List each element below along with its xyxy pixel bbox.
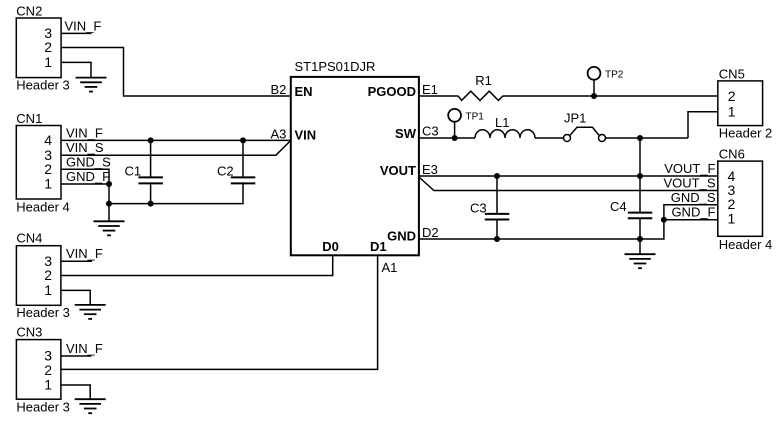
svg-text:C2: C2 xyxy=(217,164,234,179)
svg-text:CN1: CN1 xyxy=(16,111,42,126)
ground (CN3) xyxy=(75,399,106,413)
test point TP1 xyxy=(454,122,456,138)
svg-text:CN6: CN6 xyxy=(719,147,745,162)
node C3 bottom xyxy=(494,236,500,242)
wire PGOOD lead left xyxy=(419,95,458,97)
wire to CN5 pin1 xyxy=(688,112,718,138)
capacitor C2 xyxy=(231,140,256,183)
svg-text:ST1PS01DJR: ST1PS01DJR xyxy=(295,59,376,74)
svg-text:A1: A1 xyxy=(382,260,398,275)
svg-text:VIN_F: VIN_F xyxy=(66,341,103,356)
wire JP1 to node xyxy=(606,137,688,139)
svg-text:Header 3: Header 3 xyxy=(16,305,69,320)
svg-text:Header 2: Header 2 xyxy=(719,125,772,140)
resistor R1 xyxy=(458,91,503,100)
wire D0 to CN4 pin2 xyxy=(61,255,333,275)
wire VOUT to CN6 pin4 xyxy=(419,175,718,177)
capacitor C4 xyxy=(628,213,653,239)
capacitor C3 xyxy=(485,176,510,239)
svg-text:TP1: TP1 xyxy=(466,112,485,123)
svg-text:1: 1 xyxy=(44,282,52,298)
node rail junction xyxy=(106,201,112,207)
wire VOUT_S bus entry xyxy=(419,177,718,191)
svg-text:Header 4: Header 4 xyxy=(16,199,69,214)
svg-text:CN5: CN5 xyxy=(719,66,745,81)
svg-text:GND_S: GND_S xyxy=(671,190,716,205)
ground (CN1 rail) xyxy=(108,204,110,222)
jumper JP1 xyxy=(564,127,606,141)
node C4 bottom xyxy=(637,236,643,242)
svg-text:SW: SW xyxy=(395,126,417,141)
wire VIN_F to VIN pin xyxy=(61,139,291,141)
svg-text:VIN_F: VIN_F xyxy=(66,246,103,261)
svg-text:C4: C4 xyxy=(610,199,627,214)
svg-text:A3: A3 xyxy=(270,126,286,141)
wire GND_F xyxy=(61,183,109,185)
wire GND D2 rail to GND_S CN6 pin2 xyxy=(419,205,718,239)
node C1 bottom xyxy=(148,201,154,207)
svg-text:1: 1 xyxy=(728,104,736,120)
IC U1 ST1PS01DJR xyxy=(291,77,419,255)
ground (CN4) xyxy=(75,305,106,319)
svg-text:VOUT_F: VOUT_F xyxy=(664,161,715,176)
wire SW lead xyxy=(419,137,475,139)
svg-text:Header 4: Header 4 xyxy=(719,237,772,252)
svg-text:2: 2 xyxy=(728,88,736,104)
node VOUT C4 xyxy=(637,173,643,179)
svg-text:1: 1 xyxy=(44,54,52,70)
svg-text:1: 1 xyxy=(44,175,52,191)
ground (CN2) xyxy=(76,78,107,92)
svg-text:R1: R1 xyxy=(475,73,492,88)
node GND_F junction xyxy=(661,217,667,223)
svg-text:VIN_F: VIN_F xyxy=(66,125,103,140)
connector CN3 (Header 3) xyxy=(16,340,61,400)
wire GND_F to CN6 pin1 xyxy=(664,219,718,221)
svg-text:E1: E1 xyxy=(422,82,438,97)
wire CN2 pin2 to EN xyxy=(61,48,291,97)
node GND_F junction xyxy=(106,181,112,187)
connector CN1 (Header 4) xyxy=(16,126,61,200)
connector CN5 (Header 2) xyxy=(718,81,763,126)
svg-text:D0: D0 xyxy=(322,239,339,254)
wire CN2 pin1 to ground xyxy=(61,62,91,77)
wire L1 to JP1 xyxy=(535,137,563,139)
svg-text:VOUT_S: VOUT_S xyxy=(663,176,715,191)
svg-text:1: 1 xyxy=(728,210,736,226)
svg-text:VOUT: VOUT xyxy=(380,163,416,178)
wire CN3 pin1 to ground xyxy=(61,385,90,399)
wire CN4 pin3 stub xyxy=(61,260,92,262)
svg-text:GND: GND xyxy=(387,228,416,243)
node C1 top xyxy=(148,137,154,143)
svg-text:PGOOD: PGOOD xyxy=(368,84,416,99)
svg-text:D1: D1 xyxy=(370,239,387,254)
wire CN2 pin3 stub xyxy=(61,32,91,34)
wire GND_S xyxy=(61,169,109,203)
svg-text:2: 2 xyxy=(44,267,52,283)
node C2 top xyxy=(240,137,246,143)
svg-text:C1: C1 xyxy=(125,164,142,179)
node SW/VOUT junction xyxy=(637,135,643,141)
inductor L1 xyxy=(475,130,535,138)
wire CN3 pin3 stub xyxy=(61,355,92,357)
svg-text:VIN_F: VIN_F xyxy=(65,18,102,33)
svg-text:C3: C3 xyxy=(422,124,439,139)
svg-text:CN4: CN4 xyxy=(16,231,42,246)
connector CN2 (Header 3) xyxy=(16,18,61,78)
svg-text:GND_F: GND_F xyxy=(671,205,715,220)
wire CN4 pin1 to ground xyxy=(61,290,90,305)
wire PGOOD to CN5 pin2 xyxy=(503,95,718,97)
svg-text:2: 2 xyxy=(44,39,52,55)
test point TP2 xyxy=(593,80,595,96)
svg-text:1: 1 xyxy=(44,377,52,393)
wire ground rail (C1 C2) xyxy=(109,183,243,203)
svg-text:4: 4 xyxy=(44,132,52,148)
node VOUT C3 xyxy=(494,173,500,179)
ground (output rail) xyxy=(639,239,641,254)
svg-text:Header 3: Header 3 xyxy=(16,77,69,92)
wire VOUT riser from SW node xyxy=(639,138,641,213)
svg-text:L1: L1 xyxy=(495,115,509,130)
svg-text:EN: EN xyxy=(295,84,313,99)
svg-text:B2: B2 xyxy=(270,82,286,97)
node TP1 junction xyxy=(452,135,458,141)
svg-text:VIN: VIN xyxy=(295,128,317,143)
svg-text:VIN_S: VIN_S xyxy=(66,140,104,155)
node TP2 junction xyxy=(591,93,597,99)
svg-text:E3: E3 xyxy=(422,162,438,177)
svg-text:CN3: CN3 xyxy=(16,325,42,340)
svg-text:GND_F: GND_F xyxy=(66,169,110,184)
svg-text:C3: C3 xyxy=(470,200,487,215)
svg-text:TP2: TP2 xyxy=(605,70,624,81)
svg-text:D2: D2 xyxy=(422,225,439,240)
svg-text:2: 2 xyxy=(44,362,52,378)
connector CN4 (Header 3) xyxy=(16,246,61,306)
capacitor C1 xyxy=(138,140,163,203)
connector CN6 (Header 4) xyxy=(718,161,763,236)
wire D1 to CN3 pin2 xyxy=(61,255,378,369)
svg-text:JP1: JP1 xyxy=(564,111,586,126)
wire VIN_S with bus entry to VIN pin xyxy=(61,140,291,155)
svg-text:CN2: CN2 xyxy=(16,4,42,19)
svg-text:GND_S: GND_S xyxy=(66,154,111,169)
svg-text:Header 3: Header 3 xyxy=(16,400,69,415)
